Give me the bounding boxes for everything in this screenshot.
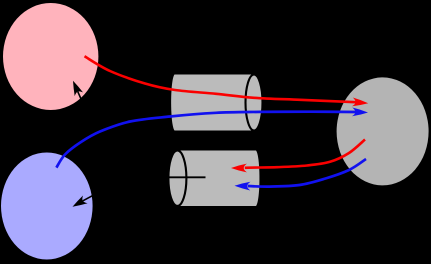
red forward wire (source to target) bbox=[85, 56, 357, 102]
top cylinder body bbox=[171, 75, 254, 131]
red forward arrowhead bbox=[352, 98, 368, 107]
blue forward arrowhead bbox=[352, 108, 368, 117]
top cylinder right cap bbox=[246, 75, 263, 131]
red return wire (target to bottom cylinder) bbox=[245, 140, 365, 168]
blue return wire (target to bottom cylinder) bbox=[248, 159, 366, 187]
bottom cylinder body bbox=[177, 151, 259, 207]
blue receiver ellipse bbox=[1, 153, 93, 260]
bottom cylinder axis line bbox=[162, 176, 206, 178]
black arrow inside pink ellipse bbox=[73, 81, 83, 104]
gray target ellipse bbox=[337, 77, 429, 185]
red return arrowhead bbox=[231, 164, 247, 173]
black arrow inside blue ellipse bbox=[73, 193, 98, 207]
blue forward wire (receiver to target) bbox=[56, 112, 356, 168]
blue return arrowhead bbox=[235, 182, 251, 191]
bottom cylinder left cap bbox=[168, 150, 186, 206]
pink source ellipse bbox=[3, 3, 98, 110]
